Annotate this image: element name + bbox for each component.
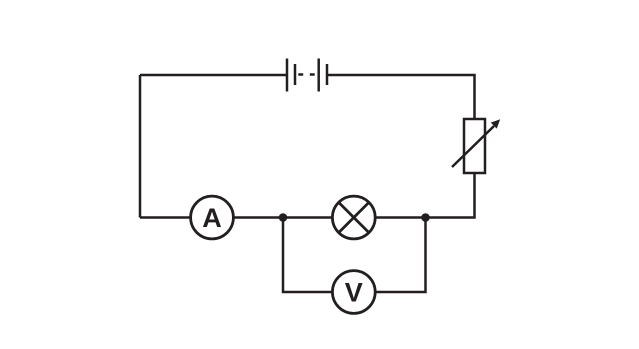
wire voltmeter branch left — [283, 218, 332, 293]
ammeter A1 — [191, 196, 234, 239]
lamp L1 — [332, 196, 375, 239]
wire left vertical — [139, 75, 142, 218]
voltmeter V1 — [332, 271, 375, 314]
wire battery to top-right corner down to rheostat — [327, 75, 475, 119]
svg-text:V: V — [345, 277, 363, 307]
variable resistor R1 — [452, 119, 500, 173]
wire bottom-left to ammeter — [140, 216, 191, 219]
wire rheostat bottom to bottom-right corner — [377, 173, 475, 218]
svg-text:A: A — [202, 203, 222, 233]
node junction left — [279, 213, 288, 222]
battery B1 — [287, 59, 327, 92]
node junction right — [421, 213, 430, 222]
wire voltmeter branch right — [375, 218, 425, 293]
wire ammeter to lamp — [234, 216, 333, 219]
wire top-left horizontal — [140, 74, 287, 77]
